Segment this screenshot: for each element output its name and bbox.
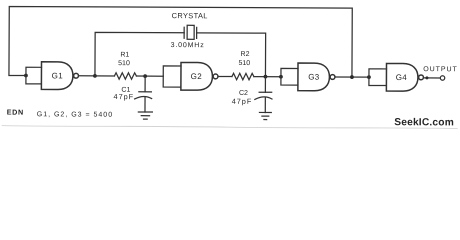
- wire to R1: [95, 75, 114, 77]
- svg-text:3.00MHz: 3.00MHz: [171, 42, 205, 49]
- svg-text:510: 510: [238, 60, 250, 67]
- resistor R2 510: [232, 73, 254, 80]
- node C2 / crystal right junction: [264, 75, 268, 79]
- capacitor C1 47pF: [135, 76, 152, 112]
- wire G2 output to R2: [218, 75, 232, 77]
- resistor R1 510: [114, 73, 136, 80]
- wire R1 to G2 input: [136, 75, 163, 77]
- output terminal: [440, 76, 444, 80]
- svg-text:G3: G3: [308, 73, 320, 82]
- wire feedback loop (G3 output to G1 input, over the top): [9, 6, 352, 77]
- ground (C2): [259, 112, 271, 119]
- svg-text:OUTPUT: OUTPUT: [423, 66, 458, 73]
- wire G3 output to G4: [335, 76, 369, 78]
- svg-text:G2: G2: [191, 72, 203, 81]
- svg-text:510: 510: [118, 60, 130, 67]
- scan artifact streak: [2, 126, 458, 129]
- svg-text:R2: R2: [241, 51, 250, 58]
- gate G1 (NAND as inverter): [41, 62, 78, 90]
- wire G1 output to crystal junction: [79, 75, 95, 77]
- gate G3: [298, 63, 335, 91]
- gate G2: [181, 62, 218, 90]
- svg-text:47pF: 47pF: [114, 92, 135, 101]
- gate G4: [386, 63, 423, 91]
- node feedback junction: [350, 75, 354, 79]
- svg-text:47pF: 47pF: [232, 97, 253, 106]
- node G3 input junction: [279, 75, 283, 79]
- ground (C1): [138, 112, 152, 119]
- wire crystal branch left riser: [95, 32, 184, 76]
- crystal Y1 symbol: [184, 25, 197, 39]
- svg-text:G1: G1: [52, 71, 64, 80]
- svg-text:R1: R1: [120, 52, 129, 59]
- capacitor C2 47pF: [255, 77, 272, 113]
- svg-text:G4: G4: [396, 73, 408, 82]
- node output stub: [425, 76, 428, 79]
- wire G2 input split: [163, 66, 181, 87]
- svg-text:CRYSTAL: CRYSTAL: [172, 11, 208, 20]
- node G4 input junction: [367, 75, 371, 79]
- wire R2 to G3 input: [254, 76, 281, 78]
- node C1 junction: [143, 74, 147, 78]
- node crystal left junction: [93, 74, 97, 78]
- wire G3 input split: [281, 68, 298, 85]
- wire crystal branch right riser: [196, 33, 265, 77]
- node G1 input junction: [24, 74, 28, 78]
- svg-text:EDN: EDN: [7, 108, 24, 117]
- svg-text:SeekIC.com: SeekIC.com: [394, 117, 454, 128]
- wire G1 input split: [26, 67, 42, 84]
- wire G4 input split: [369, 69, 387, 86]
- svg-text:G1, G2, G3 = 5400: G1, G2, G3 = 5400: [37, 111, 113, 118]
- wire G4 output to terminal: [424, 77, 441, 79]
